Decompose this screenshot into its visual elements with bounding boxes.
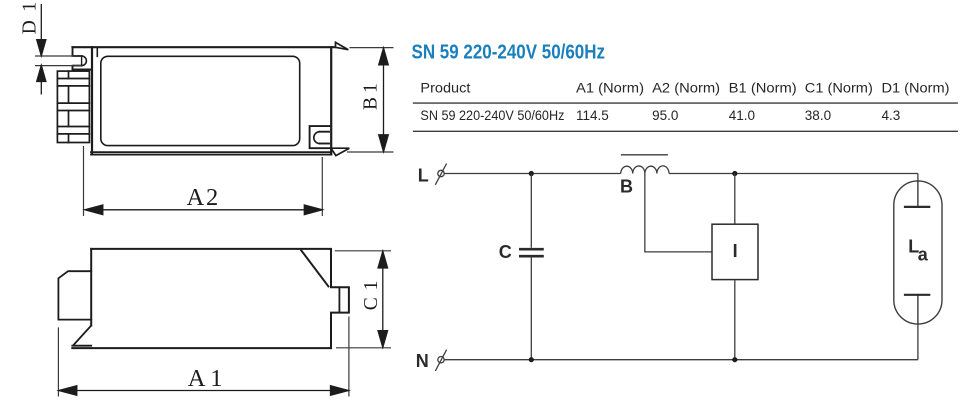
dimension A2 extension lines xyxy=(84,146,323,216)
svg-text:C1 (Norm): C1 (Norm) xyxy=(805,80,873,95)
dimension B1 arrow xyxy=(379,48,389,152)
svg-text:38.0: 38.0 xyxy=(805,108,831,123)
node top I branch xyxy=(732,171,737,176)
top-right snap tab of top view xyxy=(336,42,349,49)
housing top-left flange and keyhole slot xyxy=(73,47,98,69)
svg-text:a: a xyxy=(918,244,929,264)
svg-text:A2 (Norm): A2 (Norm) xyxy=(652,80,720,95)
dimension A1 extension lines xyxy=(58,317,349,397)
inner rounded cover of top view xyxy=(101,56,300,145)
dimension A1 arrow xyxy=(59,386,349,396)
svg-text:B: B xyxy=(620,177,633,197)
dimension A2 arrow xyxy=(85,205,322,215)
node bottom C branch xyxy=(529,357,534,362)
svg-text:SN 59 220-240V 50/60Hz: SN 59 220-240V 50/60Hz xyxy=(420,108,564,123)
svg-text:D1 (Norm): D1 (Norm) xyxy=(882,80,950,95)
capacitor C xyxy=(519,249,544,256)
wire top L to inductor xyxy=(444,173,621,175)
svg-text:C 1: C 1 xyxy=(361,280,382,311)
node top C branch xyxy=(529,171,534,176)
svg-text:N: N xyxy=(416,351,429,371)
svg-text:A 1: A 1 xyxy=(188,365,223,392)
svg-text:95.0: 95.0 xyxy=(652,108,678,123)
ignitor box I xyxy=(712,224,758,279)
wire bottom N to lamp xyxy=(444,359,918,361)
table data row xyxy=(420,108,900,123)
svg-text:114.5: 114.5 xyxy=(576,108,609,123)
dimension D1 arrows xyxy=(37,4,46,95)
lamp top electrode xyxy=(904,181,930,207)
side view connector block xyxy=(58,271,91,319)
dimension C1 arrow xyxy=(378,251,388,347)
side view foot xyxy=(72,326,91,346)
table rule under header xyxy=(413,102,958,104)
svg-text:B1 (Norm): B1 (Norm) xyxy=(729,80,797,95)
dimension B1 extension lines xyxy=(347,48,394,152)
svg-text:Product: Product xyxy=(420,80,470,95)
svg-text:L: L xyxy=(418,166,429,186)
dimension D1 leader lines xyxy=(35,56,82,66)
wire lamp top lead xyxy=(917,174,919,181)
svg-text:D 1: D 1 xyxy=(20,0,41,34)
wire C branch upper xyxy=(530,174,532,248)
wire ignitor top lead xyxy=(734,174,736,225)
wire inductor to lamp xyxy=(669,173,918,175)
svg-text:B1: B1 xyxy=(361,79,382,110)
svg-text:41.0: 41.0 xyxy=(729,108,755,123)
dimension C1 extension lines xyxy=(335,251,391,348)
table header row xyxy=(420,80,949,95)
housing top view outline xyxy=(73,47,336,154)
lamp La envelope xyxy=(894,181,942,324)
svg-text:A1 (Norm): A1 (Norm) xyxy=(576,80,644,95)
inductor core bar xyxy=(621,154,668,156)
svg-text:SN 59 220-240V 50/60Hz: SN 59 220-240V 50/60Hz xyxy=(412,41,606,64)
node bottom I branch xyxy=(732,357,737,362)
table rule under data row xyxy=(413,130,958,132)
svg-text:C: C xyxy=(499,242,512,262)
terminal block (left side of top view) xyxy=(57,71,89,142)
wire lamp bottom lead xyxy=(917,324,919,360)
svg-text:4.3: 4.3 xyxy=(882,108,901,123)
inductor B xyxy=(621,166,669,174)
svg-text:I: I xyxy=(733,241,738,261)
wire ignitor bottom lead xyxy=(734,280,736,360)
wire inductor tap to ignitor xyxy=(645,174,712,252)
terminal N xyxy=(435,350,446,371)
wire C branch lower xyxy=(530,258,532,360)
bottom-right keyhole slot of top view xyxy=(310,126,331,148)
lamp bottom electrode xyxy=(904,295,930,324)
bottom-right snap tab of top view xyxy=(331,148,349,155)
terminal L xyxy=(435,164,446,185)
housing side view outline xyxy=(72,249,349,348)
svg-text:A2: A2 xyxy=(187,184,221,211)
